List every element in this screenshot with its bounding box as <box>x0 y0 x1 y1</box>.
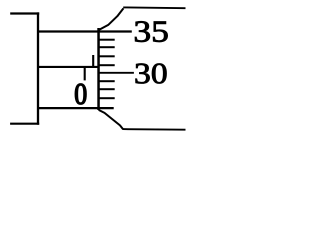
main scale tick above datum <box>92 55 94 68</box>
sleeve bottom line merging into lowest thimble tick <box>37 107 114 109</box>
sleeve top line merging into 35 pointer <box>37 30 132 32</box>
thimble 30 pointer line <box>99 72 134 74</box>
main scale label 0 <box>75 84 86 104</box>
thimble edge vertical <box>97 28 100 110</box>
frame bracket top line <box>10 12 39 14</box>
frame bracket vertical <box>37 12 39 124</box>
thimble label 35 <box>135 21 167 42</box>
sleeve datum line <box>37 66 99 68</box>
thimble tick 32 <box>99 55 115 57</box>
frame bracket bottom line <box>10 123 39 125</box>
thimble tick 34 <box>99 39 115 41</box>
thimble label 30 <box>136 64 167 84</box>
thimble bottom outline <box>123 128 186 131</box>
thimble top outline <box>123 6 185 9</box>
thimble tick 27 <box>99 97 115 99</box>
thimble tick 31 <box>99 64 115 66</box>
main scale tick below datum <box>84 67 86 81</box>
thimble tick 33 <box>99 46 115 48</box>
thimble top shoulder curve <box>99 8 124 30</box>
thimble tick 29 <box>99 80 115 82</box>
thimble bottom shoulder curve <box>99 110 124 129</box>
thimble tick 28 <box>99 88 115 90</box>
